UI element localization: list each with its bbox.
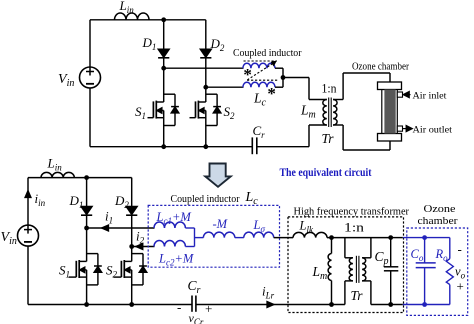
svg-text:i2: i2 xyxy=(136,229,145,246)
svg-text:-: - xyxy=(177,300,181,315)
current arrow iin xyxy=(25,191,31,198)
label High frequency transformer heading xyxy=(294,207,410,218)
label 1:n (top circuit) xyxy=(322,82,338,96)
svg-text:Lc2+M: Lc2+M xyxy=(158,252,194,268)
svg-text:-M: -M xyxy=(213,217,228,231)
source Vin (equivalent circuit) xyxy=(18,225,39,246)
wire left rail lower (top circuit) xyxy=(89,88,91,147)
inductor Lin (equivalent circuit) xyxy=(41,172,74,177)
svg-text:Cr: Cr xyxy=(188,278,201,296)
svg-text:D2: D2 xyxy=(210,36,225,53)
label Air outlet xyxy=(413,126,453,136)
label D2 (equivalent circuit) xyxy=(114,193,129,210)
wire coupled inductor right vertical xyxy=(275,68,283,87)
svg-text:-: - xyxy=(458,242,462,257)
label Lc heading (equivalent) xyxy=(245,190,259,207)
label Co xyxy=(411,247,424,263)
label iLr xyxy=(262,284,275,301)
wire transformer primary bottom stub xyxy=(309,125,327,147)
label chamber heading xyxy=(418,216,459,227)
label S2 (top circuit) xyxy=(224,104,236,121)
label vCr plus xyxy=(205,301,212,316)
junction dot S1 source rail xyxy=(161,144,166,149)
wire node a horizontal (D1 to coupled inductor) xyxy=(164,67,244,69)
label i1 xyxy=(105,209,113,226)
svg-text:Lc1+M: Lc1+M xyxy=(156,210,192,226)
label Cr (top circuit) xyxy=(253,123,266,140)
svg-text:D1: D1 xyxy=(142,35,157,52)
coupling dashed arrow diagonal xyxy=(247,61,276,80)
svg-text:Ro: Ro xyxy=(435,247,449,263)
inductor Lc1+M xyxy=(154,222,185,228)
wire ozone bottom rail (blue) xyxy=(403,304,450,306)
inductor Lm (equivalent circuit) xyxy=(328,238,331,305)
svg-text:S2: S2 xyxy=(224,104,236,121)
dashed box coupled inductor xyxy=(148,205,279,267)
label Lin (equivalent circuit) xyxy=(47,156,63,173)
svg-text:S1: S1 xyxy=(135,104,146,121)
svg-text:Lm: Lm xyxy=(300,103,316,121)
source Vin (top circuit) xyxy=(80,67,101,88)
label Llk xyxy=(299,219,314,235)
label iin xyxy=(35,191,46,208)
svg-text:Air outlet: Air outlet xyxy=(413,126,453,136)
wire node i2 horizontal xyxy=(132,246,155,248)
svg-text:i1: i1 xyxy=(105,209,113,226)
dashed box high frequency transformer xyxy=(288,217,404,313)
svg-text:S1: S1 xyxy=(59,263,70,280)
svg-text:Lin: Lin xyxy=(119,0,135,15)
svg-text:D2: D2 xyxy=(114,193,129,210)
ozone chamber air inlet port xyxy=(397,92,402,97)
wire bottom rail right (top circuit) xyxy=(257,146,309,148)
label Cp xyxy=(375,249,389,267)
label Lm (top circuit) xyxy=(300,103,316,121)
wire transformer primary top stub xyxy=(309,99,327,101)
resistor Ro xyxy=(446,238,453,305)
svg-text:*: * xyxy=(243,65,252,84)
svg-text:chamber: chamber xyxy=(418,216,459,227)
diode D1 (equivalent circuit) xyxy=(81,178,92,228)
label S2 (equivalent circuit) xyxy=(106,263,118,280)
label Vin (top circuit) xyxy=(58,72,74,89)
svg-text:1:n: 1:n xyxy=(344,220,365,235)
junction dot Lm bottom xyxy=(329,302,334,307)
label Tr (top circuit) xyxy=(322,131,335,146)
svg-text:High frequency transformer: High frequency transformer xyxy=(294,207,410,218)
polarity star mark top winding xyxy=(243,65,252,84)
label vo plus xyxy=(457,279,464,294)
junction dot Cp bottom xyxy=(388,302,393,307)
current arrow iLr xyxy=(267,302,274,308)
air inlet arrow xyxy=(403,92,410,98)
svg-text:Tr: Tr xyxy=(322,131,335,146)
svg-text:S2: S2 xyxy=(106,263,118,280)
label i2 xyxy=(136,229,145,246)
capacitor Cp xyxy=(384,238,398,305)
junction dot D2 cathode node xyxy=(203,85,208,90)
label vCr minus xyxy=(177,300,181,315)
coupling dashed line upper xyxy=(244,60,278,62)
wire top rail (top circuit) xyxy=(90,19,206,21)
air outlet arrow xyxy=(403,126,412,132)
label Coupled inductor heading (equivalent) xyxy=(171,194,240,205)
capacitor Cr (top circuit) xyxy=(252,137,256,154)
label Coupled inductor heading (top circuit) xyxy=(233,48,302,59)
svg-text:Lc: Lc xyxy=(245,190,259,207)
label D2 (top circuit) xyxy=(210,36,225,53)
transistor S1 (equivalent circuit) xyxy=(69,228,102,305)
wire top rail (equivalent circuit) xyxy=(28,177,132,179)
diode D2 (equivalent circuit) xyxy=(126,178,137,247)
svg-text:Vin: Vin xyxy=(1,230,17,247)
inductor Llk xyxy=(293,232,327,237)
ozone chamber air outlet port xyxy=(397,126,402,131)
label Ozone heading xyxy=(424,204,456,215)
wire coupled inductor to transformer xyxy=(283,78,309,100)
svg-text:D1: D1 xyxy=(69,193,84,210)
transformer Tr primary winding (top circuit) xyxy=(323,100,327,126)
dashed box ozone chamber (equivalent) xyxy=(407,228,468,315)
junction dot node i1 xyxy=(84,226,89,231)
wire left rail upper (top circuit) xyxy=(89,20,91,67)
wire bottom rail left (equivalent circuit) xyxy=(28,304,192,306)
junction dot D1 top rail xyxy=(161,17,166,22)
wire bottom rail left (top circuit) xyxy=(90,146,252,148)
label vo xyxy=(455,265,466,281)
wire bottom rail right (equivalent) xyxy=(371,304,403,306)
ozone chamber inner electrode column xyxy=(384,90,395,134)
wire between -M and Lsigma xyxy=(235,237,244,239)
junction dot S1 source rail (equivalent) xyxy=(84,302,89,307)
svg-text:Cr: Cr xyxy=(253,123,266,140)
transistor S1 (top circuit) xyxy=(148,68,179,147)
svg-text:1:n: 1:n xyxy=(322,82,338,96)
polarity star mark bottom winding xyxy=(267,84,276,103)
label Tr (equivalent circuit) xyxy=(351,288,364,303)
label Ozone chamber (top circuit) xyxy=(352,62,410,73)
svg-text:Co: Co xyxy=(411,247,424,263)
svg-text:Lc: Lc xyxy=(253,91,267,109)
equivalence block arrow xyxy=(205,164,230,187)
wire top rail to ozone box xyxy=(391,237,403,239)
coupling dashed line middle xyxy=(247,79,279,81)
wire left rail upper (equivalent circuit) xyxy=(27,178,29,226)
label Lin (top circuit) xyxy=(119,0,135,15)
label Ro xyxy=(435,247,449,263)
junction dot coupled inductor output xyxy=(281,75,286,80)
svg-text:iLr: iLr xyxy=(262,284,275,301)
label Lm (equivalent circuit) xyxy=(312,264,328,282)
wire bottom rail middle (equivalent circuit) xyxy=(196,304,345,306)
label 1:n (equivalent circuit) xyxy=(344,220,365,235)
label vCr xyxy=(189,311,204,324)
svg-text:+: + xyxy=(457,279,464,294)
capacitor Cr (equivalent circuit) xyxy=(192,296,196,312)
junction dot Cp top xyxy=(388,235,393,240)
svg-text:Ozone: Ozone xyxy=(424,204,456,215)
svg-text:Llk: Llk xyxy=(299,219,314,235)
junction dot D1 cathode node xyxy=(161,66,166,71)
svg-text:Air inlet: Air inlet xyxy=(413,92,447,102)
wire Lsigma to HF box xyxy=(274,237,293,239)
coupled inductor Lc top winding (top circuit) xyxy=(243,63,275,68)
transformer Tr core (equivalent circuit) xyxy=(356,256,359,283)
coupled inductor Lc bottom winding (top circuit) xyxy=(243,82,275,87)
wire transformer secondary top xyxy=(333,73,390,100)
label D1 (top circuit) xyxy=(142,35,157,52)
transistor S2 (equivalent circuit) xyxy=(114,247,147,305)
transformer Tr primary (equivalent circuit) xyxy=(345,238,353,305)
current arrow i2 xyxy=(136,244,143,250)
svg-text:Ozone chamber: Ozone chamber xyxy=(352,62,410,73)
ozone chamber bottom electrode plate xyxy=(378,134,402,142)
svg-text:Lm: Lm xyxy=(312,264,328,282)
transformer Tr secondary (equivalent circuit) xyxy=(362,238,371,305)
svg-text:Lσ: Lσ xyxy=(253,218,266,234)
svg-text:Vin: Vin xyxy=(58,72,74,89)
transistor S2 (top circuit) xyxy=(190,87,222,147)
junction dot D1 top rail (equivalent) xyxy=(84,175,89,180)
wire transformer secondary bottom xyxy=(333,125,390,150)
diode D1 (top circuit) xyxy=(158,20,169,68)
label The equivalent circuit xyxy=(280,167,372,179)
inductor Lsigma xyxy=(244,232,274,238)
wire coupled windings right vertical (blue) xyxy=(185,228,203,247)
label S1 (top circuit) xyxy=(135,104,146,121)
label Lc (top circuit) xyxy=(253,91,267,109)
junction dot Co top xyxy=(422,235,427,240)
ozone chamber outer tube walls xyxy=(382,90,398,134)
svg-text:Coupled inductor: Coupled inductor xyxy=(233,48,302,59)
wire top rail HF box xyxy=(327,237,391,239)
ozone chamber top electrode plate xyxy=(378,82,402,90)
svg-text:+: + xyxy=(205,301,212,316)
junction dot S2 source rail (equivalent) xyxy=(129,302,134,307)
label Vin (equivalent circuit) xyxy=(1,230,17,247)
wire node b horizontal (D2 to coupled inductor) xyxy=(206,86,244,88)
label S1 (equivalent circuit) xyxy=(59,263,70,280)
transformer Tr secondary winding (top circuit) xyxy=(333,100,337,126)
label Lsigma xyxy=(253,218,266,234)
diode D2 (top circuit) xyxy=(200,20,211,87)
wire left rail lower (equivalent circuit) xyxy=(27,246,29,304)
label Air inlet xyxy=(413,92,447,102)
inductor Lc2+M xyxy=(154,240,185,246)
label D1 (equivalent circuit) xyxy=(69,193,84,210)
inductor Lin (top circuit) xyxy=(115,13,150,20)
junction dot S2 source rail xyxy=(203,144,208,149)
svg-text:Coupled inductor: Coupled inductor xyxy=(171,194,240,205)
svg-text:*: * xyxy=(267,84,276,103)
transformer Tr core (top circuit) xyxy=(329,98,332,128)
svg-text:vCr: vCr xyxy=(189,311,204,324)
junction dot Lm top xyxy=(329,235,334,240)
svg-text:iin: iin xyxy=(35,191,46,208)
inductor -M xyxy=(203,232,234,238)
svg-text:Cp: Cp xyxy=(375,249,389,267)
capacitor Co xyxy=(416,238,436,305)
label -M xyxy=(213,217,228,231)
label Lc2+M xyxy=(158,252,194,268)
junction dot Co bottom xyxy=(422,302,427,307)
label Cr (equivalent circuit) xyxy=(188,278,201,296)
wire ozone top rail (blue) xyxy=(403,237,450,239)
svg-text:The equivalent circuit: The equivalent circuit xyxy=(280,167,372,179)
wire node i1 horizontal xyxy=(87,227,155,229)
label vo minus xyxy=(458,242,462,257)
junction dot node i2 xyxy=(129,244,134,249)
svg-text:Lin: Lin xyxy=(47,156,63,173)
label Lc1+M xyxy=(156,210,192,226)
current arrow i1 xyxy=(102,225,109,231)
svg-text:Tr: Tr xyxy=(351,288,364,303)
